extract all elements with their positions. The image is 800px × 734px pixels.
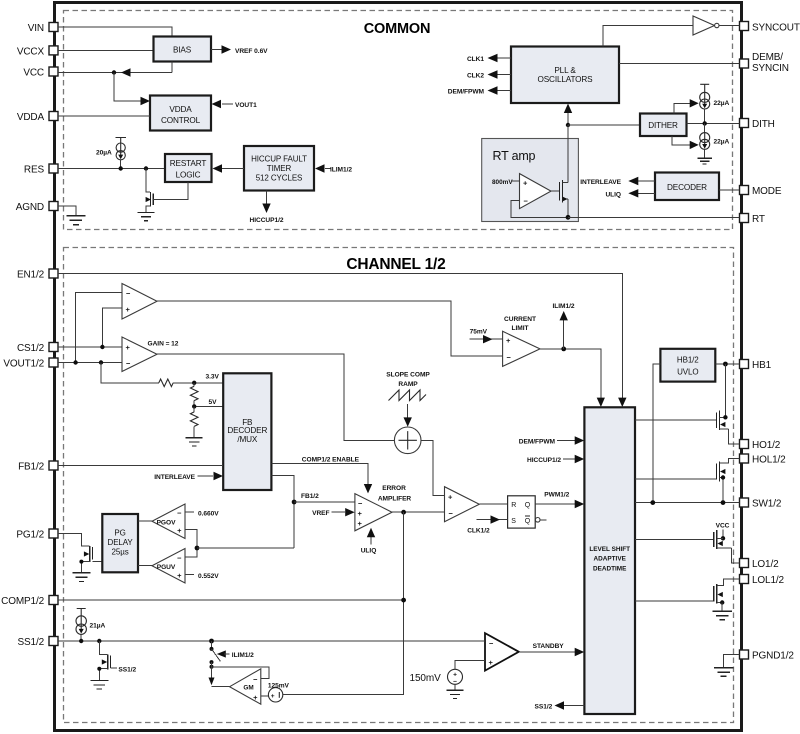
svg-text:PGOV: PGOV	[157, 519, 177, 526]
comparator PWM	[445, 487, 480, 522]
transistor HO driver FET	[635, 411, 740, 445]
resistor R-div2 (vertical)	[193, 406, 195, 412]
svg-text:CLK1: CLK1	[467, 56, 484, 63]
svg-text:OSCILLATORS: OSCILLATORS	[538, 75, 594, 84]
block VDDA CONTROL	[150, 96, 211, 131]
Qbar bubble and stub	[535, 518, 546, 523]
wire HICCUP1/2 arrow	[563, 458, 575, 460]
wire COMP1/2 pin line	[58, 599, 404, 601]
svg-text:DEMB/: DEMB/	[752, 52, 783, 63]
arrowhead 75mV	[483, 335, 493, 343]
block DITHER	[640, 114, 687, 137]
wire upper comp plus to CS line	[102, 308, 122, 347]
wire PGOV minus to 0.660V	[185, 511, 194, 513]
svg-text:COMMON: COMMON	[364, 21, 430, 37]
pin VCC	[23, 67, 58, 79]
wire HICCUP to RESTART	[222, 168, 244, 170]
wire upper 22uA to DITH line	[704, 109, 706, 123]
wire FB1/2 to error amp minus	[294, 501, 355, 503]
pin AGND	[16, 202, 58, 214]
source 150mV	[448, 669, 463, 685]
svg-text:RES: RES	[24, 165, 45, 176]
node RT feedback	[566, 215, 571, 220]
pin PG1/2	[16, 529, 58, 541]
svg-text:LEVEL SHIFT: LEVEL SHIFT	[589, 546, 630, 553]
node VCC junction	[112, 70, 116, 74]
wire HB UVLO left to SW net	[653, 364, 661, 503]
svg-text:VOUT1: VOUT1	[235, 102, 257, 109]
CHANNEL dashed box	[64, 248, 734, 723]
arrowhead EN into LEVEL SHIFT top	[618, 398, 626, 407]
arrowhead STANDBY into box	[575, 648, 585, 656]
svg-text:PLL &: PLL &	[554, 66, 576, 75]
svg-text:−: −	[253, 675, 258, 684]
wire VDDA to block	[58, 115, 150, 117]
buffer SYNCOUT	[693, 16, 719, 35]
wire PGND to ground	[714, 655, 740, 677]
switch ILIM (open)	[210, 641, 221, 664]
svg-text:DEM/FPWM: DEM/FPWM	[519, 439, 556, 446]
arrowhead into upper 22uA	[690, 99, 699, 107]
svg-text:VREF 0.6V: VREF 0.6V	[235, 48, 268, 55]
svg-text:HB1/2: HB1/2	[677, 356, 699, 365]
wire CS amp out to adder	[157, 354, 394, 440]
pin MODE	[740, 186, 782, 198]
wire PLL top to SYNCOUT buffer	[603, 26, 693, 47]
svg-text:VREF: VREF	[312, 510, 329, 517]
wire STANDBY out to LEVEL SHIFT	[519, 651, 575, 653]
source 125mV	[268, 682, 290, 702]
svg-text:PG1/2: PG1/2	[16, 530, 44, 541]
amplifier GM	[230, 669, 261, 704]
wire VREF arrow	[332, 511, 346, 513]
svg-text:VIN: VIN	[28, 23, 44, 34]
node SW-HB	[650, 500, 655, 505]
wire 21uA to SS line	[80, 634, 82, 641]
wire resistor to FB box	[173, 382, 223, 384]
svg-text:+: +	[253, 693, 258, 702]
arrowhead ULIQ	[628, 189, 638, 197]
wire COMP1/2 ENABLE	[271, 464, 368, 485]
svg-text:20µA: 20µA	[96, 150, 112, 157]
svg-text:+: +	[523, 179, 528, 188]
wire DECODER to MODE pin	[719, 189, 740, 191]
comparator PGOV	[152, 504, 185, 539]
svg-text:VOUT1/2: VOUT1/2	[3, 359, 44, 370]
svg-text:+: +	[177, 571, 182, 580]
wire INTERLEAVE arrow	[198, 475, 214, 477]
wire op-amp out to FET gate	[551, 190, 559, 192]
comparator CURRENT LIMIT	[503, 331, 540, 366]
svg-text:BIAS: BIAS	[173, 46, 192, 55]
pin VCCX	[17, 46, 58, 58]
svg-text:−: −	[507, 353, 512, 362]
svg-text:+: +	[126, 305, 131, 314]
svg-text:SYNCOUT: SYNCOUT	[752, 23, 800, 34]
wire HICCUP1/2 down	[266, 191, 268, 206]
svg-text:UVLO: UVLO	[677, 368, 698, 377]
svg-text:22µA: 22µA	[714, 139, 730, 146]
node ILIM junction	[561, 347, 566, 352]
svg-text:VCC: VCC	[716, 522, 730, 529]
svg-text:HOL1/2: HOL1/2	[752, 455, 786, 466]
node COMP net top	[401, 510, 406, 515]
node SW-HOL	[721, 500, 726, 505]
svg-text:CLK2: CLK2	[467, 73, 484, 80]
svg-text:−: −	[126, 359, 131, 368]
current source 22uA lower	[700, 133, 730, 150]
svg-text:DEADTIME: DEADTIME	[593, 565, 627, 572]
svg-text:INTERLEAVE: INTERLEAVE	[154, 474, 195, 481]
arrowhead VREF right	[222, 45, 232, 53]
pin DITH	[740, 119, 775, 131]
node GM minus junction	[210, 665, 214, 669]
transistor LOL driver FET	[635, 579, 740, 620]
wire INTERLEAVE	[638, 180, 655, 182]
current source 21uA	[76, 609, 105, 635]
arrowhead BIAS to VCC node left	[121, 68, 131, 76]
current source 22uA upper	[700, 84, 730, 109]
arrowhead ramp into adder	[404, 417, 412, 426]
wire Q to LEVEL SHIFT	[535, 503, 575, 505]
wire DITHER to DITH pin	[687, 122, 740, 124]
op-amp ERROR AMPLIFIER	[355, 494, 392, 531]
arrowhead PWM1/2 into LEVEL SHIFT	[575, 500, 585, 508]
pin COMP1/2	[1, 596, 58, 608]
wire PGOV plus to FB junction	[185, 530, 197, 549]
node RT-DITHER junction	[566, 123, 570, 127]
svg-text:+: +	[177, 526, 182, 535]
node LO drain	[721, 536, 725, 540]
node COMP pin junction	[401, 598, 406, 603]
arrowhead down to GM out line	[209, 678, 215, 686]
arrowhead into LEVEL SHIFT top (pwm cl)	[597, 398, 605, 407]
svg-text:PG: PG	[114, 528, 125, 537]
svg-text:−: −	[358, 499, 363, 508]
svg-text:+: +	[448, 492, 453, 501]
wire RT net up into PLL	[567, 113, 569, 125]
wire RT net to RT pin	[568, 216, 740, 218]
svg-text:R: R	[511, 502, 516, 509]
wire ILIM1/2 into HICCUP	[325, 168, 331, 170]
node 5V	[192, 404, 196, 408]
svg-text:ADAPTIVE: ADAPTIVE	[594, 556, 627, 563]
svg-text:S: S	[511, 518, 516, 525]
comparator PGUV	[152, 549, 185, 584]
pin FB1/2	[18, 461, 58, 473]
arrowhead into HICCUP	[315, 164, 325, 172]
wire 75mV into current limit plus	[470, 338, 503, 340]
svg-text:VCCX: VCCX	[17, 46, 45, 57]
pin DEMB/SYNCIN	[740, 52, 789, 74]
wire VOUT1 into VDDA CONTROL	[222, 103, 233, 105]
svg-text:0.552V: 0.552V	[198, 573, 219, 580]
svg-text:RAMP: RAMP	[398, 381, 418, 388]
node SS-21uA	[79, 639, 83, 643]
svg-text:ILIM1/2: ILIM1/2	[330, 167, 352, 174]
wire error amp out to PWM comp	[392, 511, 445, 513]
resistor R-top (horizontal)	[159, 379, 173, 387]
svg-text:3.3V: 3.3V	[206, 374, 220, 381]
svg-text:DITHER: DITHER	[648, 121, 678, 130]
svg-text:75mV: 75mV	[470, 328, 488, 335]
arrowhead VOUT1 left	[212, 100, 222, 108]
arrowhead DEM/FPWM into box	[575, 436, 585, 444]
transistor Q-restart	[138, 169, 189, 221]
pin SS1/2	[18, 637, 59, 649]
svg-text:CLK1/2: CLK1/2	[467, 528, 490, 535]
svg-text:ILIM1/2: ILIM1/2	[552, 303, 574, 310]
node DITH junction	[703, 121, 707, 125]
pin EN1/2	[17, 269, 58, 281]
svg-text:−: −	[449, 509, 454, 518]
svg-text:+: +	[489, 658, 494, 667]
block FB DECODER /MUX	[223, 373, 271, 490]
node RES-20uA	[119, 166, 123, 170]
svg-text:+: +	[453, 671, 457, 678]
pin LOL1/2	[740, 575, 785, 587]
wire 20uA to RES line	[120, 160, 122, 169]
svg-text:CHANNEL 1/2: CHANNEL 1/2	[346, 256, 445, 273]
wire DITHER bottom to 22uA lower	[672, 136, 690, 145]
wire upper comp minus to VOUT line	[76, 293, 122, 363]
arrowhead SS1/2 left	[555, 701, 565, 709]
svg-text:FB1/2: FB1/2	[301, 493, 319, 500]
wire PGOV out to PG DELAY	[138, 520, 152, 522]
svg-text:SLOPE COMP: SLOPE COMP	[386, 371, 430, 378]
wire switch node down with arrow to GM out	[211, 662, 213, 677]
svg-text:CURRENT: CURRENT	[504, 316, 536, 323]
pin HO1/2	[740, 440, 781, 452]
svg-text:21µA: 21µA	[90, 623, 106, 630]
ground below 22uA	[697, 149, 712, 164]
wire CS1/2 to comp	[58, 346, 122, 348]
svg-text:GAIN = 12: GAIN = 12	[148, 341, 179, 348]
svg-text:PGUV: PGUV	[157, 564, 176, 571]
svg-text:RESTART: RESTART	[170, 159, 207, 168]
wire junction to FB1/2 net	[197, 547, 294, 549]
svg-text:+: +	[126, 343, 131, 352]
pin CS1/2	[17, 343, 58, 355]
block DECODER	[655, 173, 719, 201]
svg-text:RT amp: RT amp	[493, 149, 536, 163]
wire SW1/2	[635, 502, 740, 504]
wire CLK2	[497, 74, 511, 76]
svg-text:Q: Q	[525, 502, 531, 509]
arrowhead into VDDA CONTROL	[141, 97, 151, 105]
svg-text:VDDA: VDDA	[17, 112, 45, 123]
wire GM plus to 125mV	[261, 695, 269, 697]
svg-text:AGND: AGND	[16, 202, 44, 213]
wire buffer to SYNCOUT pin	[719, 25, 740, 27]
svg-text:DECODER: DECODER	[227, 426, 267, 435]
wire adder to PWM comp plus	[421, 440, 445, 495]
wire SS1/2 pin line	[58, 640, 485, 642]
svg-text:−: −	[177, 553, 182, 562]
svg-text:MODE: MODE	[752, 186, 782, 197]
current source 20uA	[96, 138, 126, 160]
comparator STANDBY	[485, 633, 519, 671]
op-amp U-RT	[520, 174, 552, 209]
block RT amp (shaded)	[482, 139, 579, 222]
pin LO1/2	[740, 559, 780, 571]
resistor R-div1 (vertical)	[193, 383, 195, 386]
pin HOL1/2	[740, 454, 787, 466]
wire RT FET drain up (to PLL arrow)	[567, 125, 569, 183]
wire 800mV to op-amp plus	[511, 180, 520, 182]
svg-text:VCC: VCC	[23, 68, 44, 79]
svg-text:LOL1/2: LOL1/2	[752, 575, 784, 586]
block BIAS	[154, 37, 212, 62]
wire VOUT1/2 to comp	[58, 362, 122, 364]
node SS-switch	[209, 639, 214, 644]
block HB1/2 UVLO	[660, 349, 715, 382]
ground below divider	[186, 426, 203, 446]
arrowhead COMP ENABLE into error amp	[364, 484, 372, 493]
arrowhead CLK1	[488, 54, 498, 62]
svg-text:−: −	[524, 196, 529, 205]
svg-text:ULIQ: ULIQ	[361, 548, 377, 555]
pin HB1	[740, 360, 772, 372]
wire DEM/FPWM	[497, 90, 511, 92]
wire VCC to junction	[58, 62, 172, 73]
wire ILIM label stub	[224, 653, 230, 655]
wire 150mV to STANDBY plus	[455, 661, 485, 670]
arrowhead CLK2	[488, 70, 498, 78]
arrowhead into lower 22uA	[690, 141, 699, 149]
svg-text:STANDBY: STANDBY	[533, 643, 565, 650]
transistor SS FET	[90, 641, 117, 689]
wire PGUV minus to FB junction	[185, 548, 197, 557]
wire junction to DITHER	[568, 124, 640, 126]
svg-text:SW1/2: SW1/2	[752, 499, 782, 510]
pin SW1/2	[740, 498, 782, 510]
svg-text:RT: RT	[752, 214, 765, 225]
svg-text:SS1/2: SS1/2	[18, 637, 45, 648]
svg-text:LOGIC: LOGIC	[176, 171, 201, 180]
svg-text:+: +	[358, 509, 363, 518]
transistor HOL driver FET	[635, 459, 740, 503]
pin VIN	[28, 23, 58, 35]
svg-text:AMPLIFER: AMPLIFER	[378, 495, 412, 502]
wire upper comp output to current limit	[157, 301, 503, 356]
svg-text:+: +	[506, 336, 511, 345]
node CS junction	[100, 345, 104, 349]
svg-text:ILIM1/2: ILIM1/2	[232, 652, 254, 659]
node VOUT junction B	[99, 360, 103, 364]
svg-text:+: +	[358, 519, 363, 528]
wire ILIM1/2 up	[563, 320, 565, 349]
wire VCC stub to LO FET drain	[722, 530, 724, 539]
node RES-FET	[144, 166, 148, 170]
svg-text:512 CYCLES: 512 CYCLES	[256, 173, 303, 182]
arrowhead HICCUP1/2 down	[262, 204, 270, 214]
wire DITHER top to 22uA upper	[674, 103, 690, 113]
arrowhead DEM/FPWM	[488, 86, 498, 94]
svg-text:DECODER: DECODER	[667, 183, 707, 192]
pin VDDA	[17, 112, 58, 124]
svg-text:−: −	[126, 289, 131, 298]
svg-text:INTERLEAVE: INTERLEAVE	[580, 179, 621, 186]
pin SYNCOUT	[740, 22, 800, 34]
svg-text:22µA: 22µA	[714, 100, 730, 107]
pin PGND1/2	[740, 650, 795, 662]
wire DEM/FPWM arrow	[557, 440, 575, 442]
block PLL & OSCILLATORS	[511, 47, 619, 104]
wire 125mV to COMP net	[283, 694, 404, 696]
wire PLL to DEMB/SYNCIN	[619, 63, 740, 65]
wire PG1/2 pin to FET	[58, 533, 90, 546]
comparator EN (upper)	[122, 284, 157, 320]
pin RT	[740, 214, 765, 226]
svg-text:LO1/2: LO1/2	[752, 559, 779, 570]
wire VIN to BIAS top	[58, 27, 172, 36]
wire DITH junction down to 22uA lower	[704, 123, 706, 132]
arrowhead CLK1/2	[491, 515, 501, 523]
svg-text:−: −	[177, 508, 182, 517]
svg-text:DEM/FPWM: DEM/FPWM	[448, 89, 485, 96]
svg-text:0.660V: 0.660V	[198, 511, 219, 518]
arrowhead VREF into error amp	[345, 508, 355, 516]
wire HB UVLO right to HB1 pin	[715, 363, 739, 365]
wire ramp down to adder	[407, 404, 409, 418]
wire ULIQ arrow up	[370, 537, 372, 545]
svg-text:LIMIT: LIMIT	[512, 325, 529, 332]
svg-text:HO1/2: HO1/2	[752, 440, 781, 451]
COMMON dashed box	[64, 11, 733, 230]
svg-text:DELAY: DELAY	[108, 538, 134, 547]
node HB1	[723, 362, 728, 367]
pin RES	[24, 164, 58, 176]
block PG DELAY	[102, 514, 138, 572]
node PG comparators junction	[195, 546, 200, 551]
arrowhead ULIQ into error amp bottom	[367, 528, 375, 537]
svg-text:COMP1/2 ENABLE: COMP1/2 ENABLE	[302, 456, 360, 463]
svg-text:EN1/2: EN1/2	[17, 270, 45, 281]
arrowhead INTERLEAVE	[628, 177, 638, 185]
transistor RT FET	[560, 180, 568, 203]
transistor PG FET	[72, 546, 102, 582]
node SS-FET	[97, 639, 101, 643]
wire PGUV out to PG DELAY	[138, 565, 152, 567]
svg-text:SS1/2: SS1/2	[535, 704, 553, 711]
svg-text:HB1: HB1	[752, 360, 772, 371]
wire PGUV plus to 0.552V	[185, 574, 194, 576]
wire RES to RESTART LOGIC	[58, 168, 165, 170]
svg-text:HICCUP FAULT: HICCUP FAULT	[251, 154, 307, 163]
node 3.3V	[192, 381, 196, 385]
block HICCUP FAULT TIMER	[244, 146, 314, 191]
wire CLK1	[497, 57, 511, 59]
ground below 150mV	[447, 684, 464, 698]
svg-text:125mV: 125mV	[268, 682, 290, 689]
arrowhead INTERLEAVE into FB box	[214, 472, 224, 480]
arrowhead ILIM1/2 switch	[217, 650, 226, 657]
wire VOUT down to divider resistor	[101, 363, 159, 383]
svg-text:HICCUP1/2: HICCUP1/2	[250, 217, 284, 224]
svg-text:150mV: 150mV	[410, 673, 442, 684]
adder (slope comp summer)	[394, 427, 421, 454]
svg-text:/MUX: /MUX	[237, 435, 258, 444]
wire VCCX to BIAS left	[58, 49, 154, 51]
svg-text:GM: GM	[243, 685, 253, 692]
node FB1/2	[292, 500, 297, 505]
wire FB decoder out to FB1/2 node	[271, 476, 294, 549]
wire GM minus loop to switch node	[212, 667, 270, 679]
wire SS1/2 out of LEVEL SHIFT	[564, 705, 584, 707]
wire FB1/2 pin to FB box	[58, 465, 223, 467]
sawtooth waveform	[389, 390, 427, 401]
